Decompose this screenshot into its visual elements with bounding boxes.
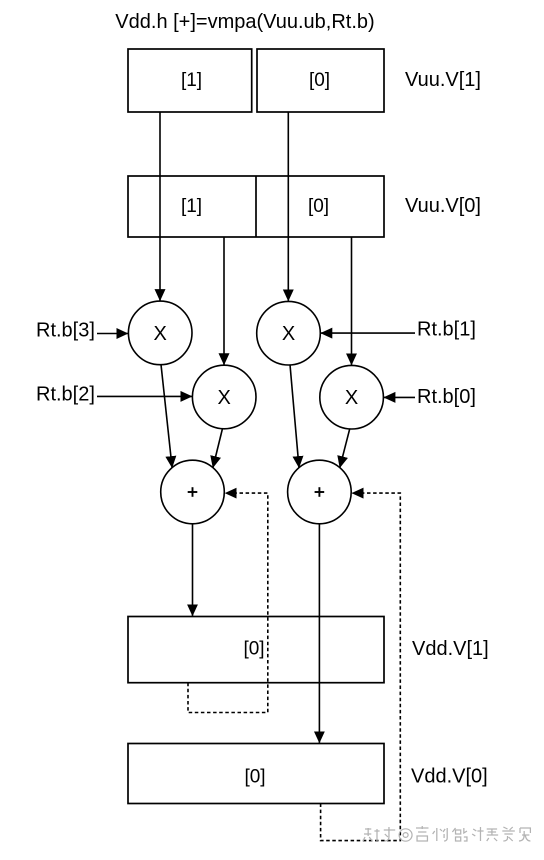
svg-text:X: X [218,387,231,409]
watermark 知乎@高性能计算学院 [363,826,530,841]
label [0] in Vdd.V[1] [243,639,264,660]
svg-text:Vuu.V[1]: Vuu.V[1] [405,69,481,91]
adder A1 [161,460,225,524]
multiplier X4 [320,365,384,429]
label Vuu.V[1] [405,69,481,91]
svg-text:Rt.b[1]: Rt.b[1] [417,319,476,341]
label [0] in Vuu.V[0] [308,196,329,217]
wire Rt.b[2] to X2 [97,395,192,397]
svg-text:[0]: [0] [309,70,330,91]
wire X3 to adder A2 [290,365,299,468]
wire Rt.b[3] to X1 [97,333,128,335]
wire adder A1 to Vdd.V[1] [192,524,194,616]
svg-text:Vdd.h [+]=vmpa(Vuu.ub,Rt.b): Vdd.h [+]=vmpa(Vuu.ub,Rt.b) [115,11,374,33]
svg-text:[1]: [1] [181,70,202,91]
multiplier X2 [192,365,256,429]
svg-text:Rt.b[3]: Rt.b[3] [36,320,95,342]
label Rt.b[1] [417,319,476,341]
wire X2 to adder A1 [213,429,223,468]
label [1] in Vuu.V[1] [181,70,202,91]
label Vdd.V[1] [412,638,489,660]
register Vuu.V[1] cell [1] [128,49,252,112]
label Vuu.V[0] [405,195,481,217]
adder A2 [288,460,352,524]
svg-text:[0]: [0] [308,196,329,217]
title Vdd.h [+]=vmpa(Vuu.ub,Rt.b) [115,11,374,33]
multiplier X3 [257,301,321,365]
label Rt.b[2] [36,384,95,406]
wire Vuu.V[0][0] to multiplier X4 [351,237,353,365]
wire Rt.b[0] to X4 [384,396,415,398]
multiplier X1 [128,301,192,365]
register Vuu.V[0] [128,176,384,237]
svg-text:X: X [154,323,167,345]
register Vdd.V[1] [128,617,384,683]
svg-text:Vdd.V[0]: Vdd.V[0] [411,766,488,788]
svg-text:X: X [282,323,295,345]
wire Rt.b[1] to X3 [321,332,415,334]
dashed accumulate feedback Vdd.V[1] to adder A1 [188,493,268,712]
register Vuu.V[1] cell [0] [257,49,384,112]
label Rt.b[3] [36,320,95,342]
dashed accumulate feedback Vdd.V[0] to adder A2 [321,493,401,840]
svg-text:Vuu.V[0]: Vuu.V[0] [405,195,481,217]
label Vdd.V[0] [411,766,488,788]
label Rt.b[0] [417,386,476,408]
wire Vuu.V[1][1] to multiplier X1 [159,112,161,301]
svg-text:Vdd.V[1]: Vdd.V[1] [412,638,489,660]
label [1] in Vuu.V[0] [181,196,202,217]
wire X1 to adder A1 [161,365,172,468]
svg-text:[0]: [0] [243,639,264,660]
svg-text:[0]: [0] [244,767,265,788]
svg-text:[1]: [1] [181,196,202,217]
svg-text:Rt.b[2]: Rt.b[2] [36,384,95,406]
wire adder A2 to Vdd.V[0] [318,524,320,743]
label [0] in Vuu.V[1] [309,70,330,91]
label [0] in Vdd.V[0] [244,767,265,788]
wire X4 to adder A2 [340,429,350,468]
svg-text:X: X [345,387,358,409]
register Vdd.V[0] [128,744,384,804]
wire Vuu.V[0][1] to multiplier X2 [223,237,225,365]
svg-text:Rt.b[0]: Rt.b[0] [417,386,476,408]
wire Vuu.V[1][0] to multiplier X3 [287,112,289,301]
